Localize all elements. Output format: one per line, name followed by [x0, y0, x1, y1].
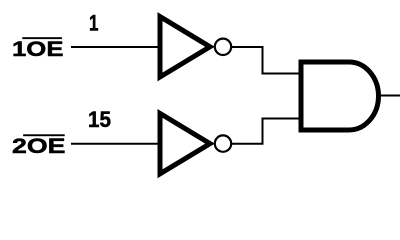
svg-text:1OE: 1OE [12, 37, 64, 61]
overline over OE of 2OE [23, 134, 65, 136]
wire from U1 bubble to AND gate top input [231, 47, 301, 74]
inverter U2 triangle [160, 113, 210, 173]
overline over OE of 1OE [22, 37, 62, 39]
svg-text:2OE: 2OE [12, 134, 66, 158]
svg-text:1: 1 [89, 10, 99, 35]
wire from 2OE to inverter U2 input [71, 143, 158, 145]
wire from 1OE to inverter U1 input [71, 46, 158, 48]
AND gate body [301, 62, 379, 130]
output wire [379, 95, 400, 97]
svg-text:15: 15 [88, 107, 111, 132]
inverter U1 triangle [160, 17, 210, 77]
wire from U2 bubble to AND gate bottom input [231, 119, 301, 144]
inverter U1 output bubble [215, 39, 231, 55]
inverter U2 output bubble [215, 135, 231, 151]
